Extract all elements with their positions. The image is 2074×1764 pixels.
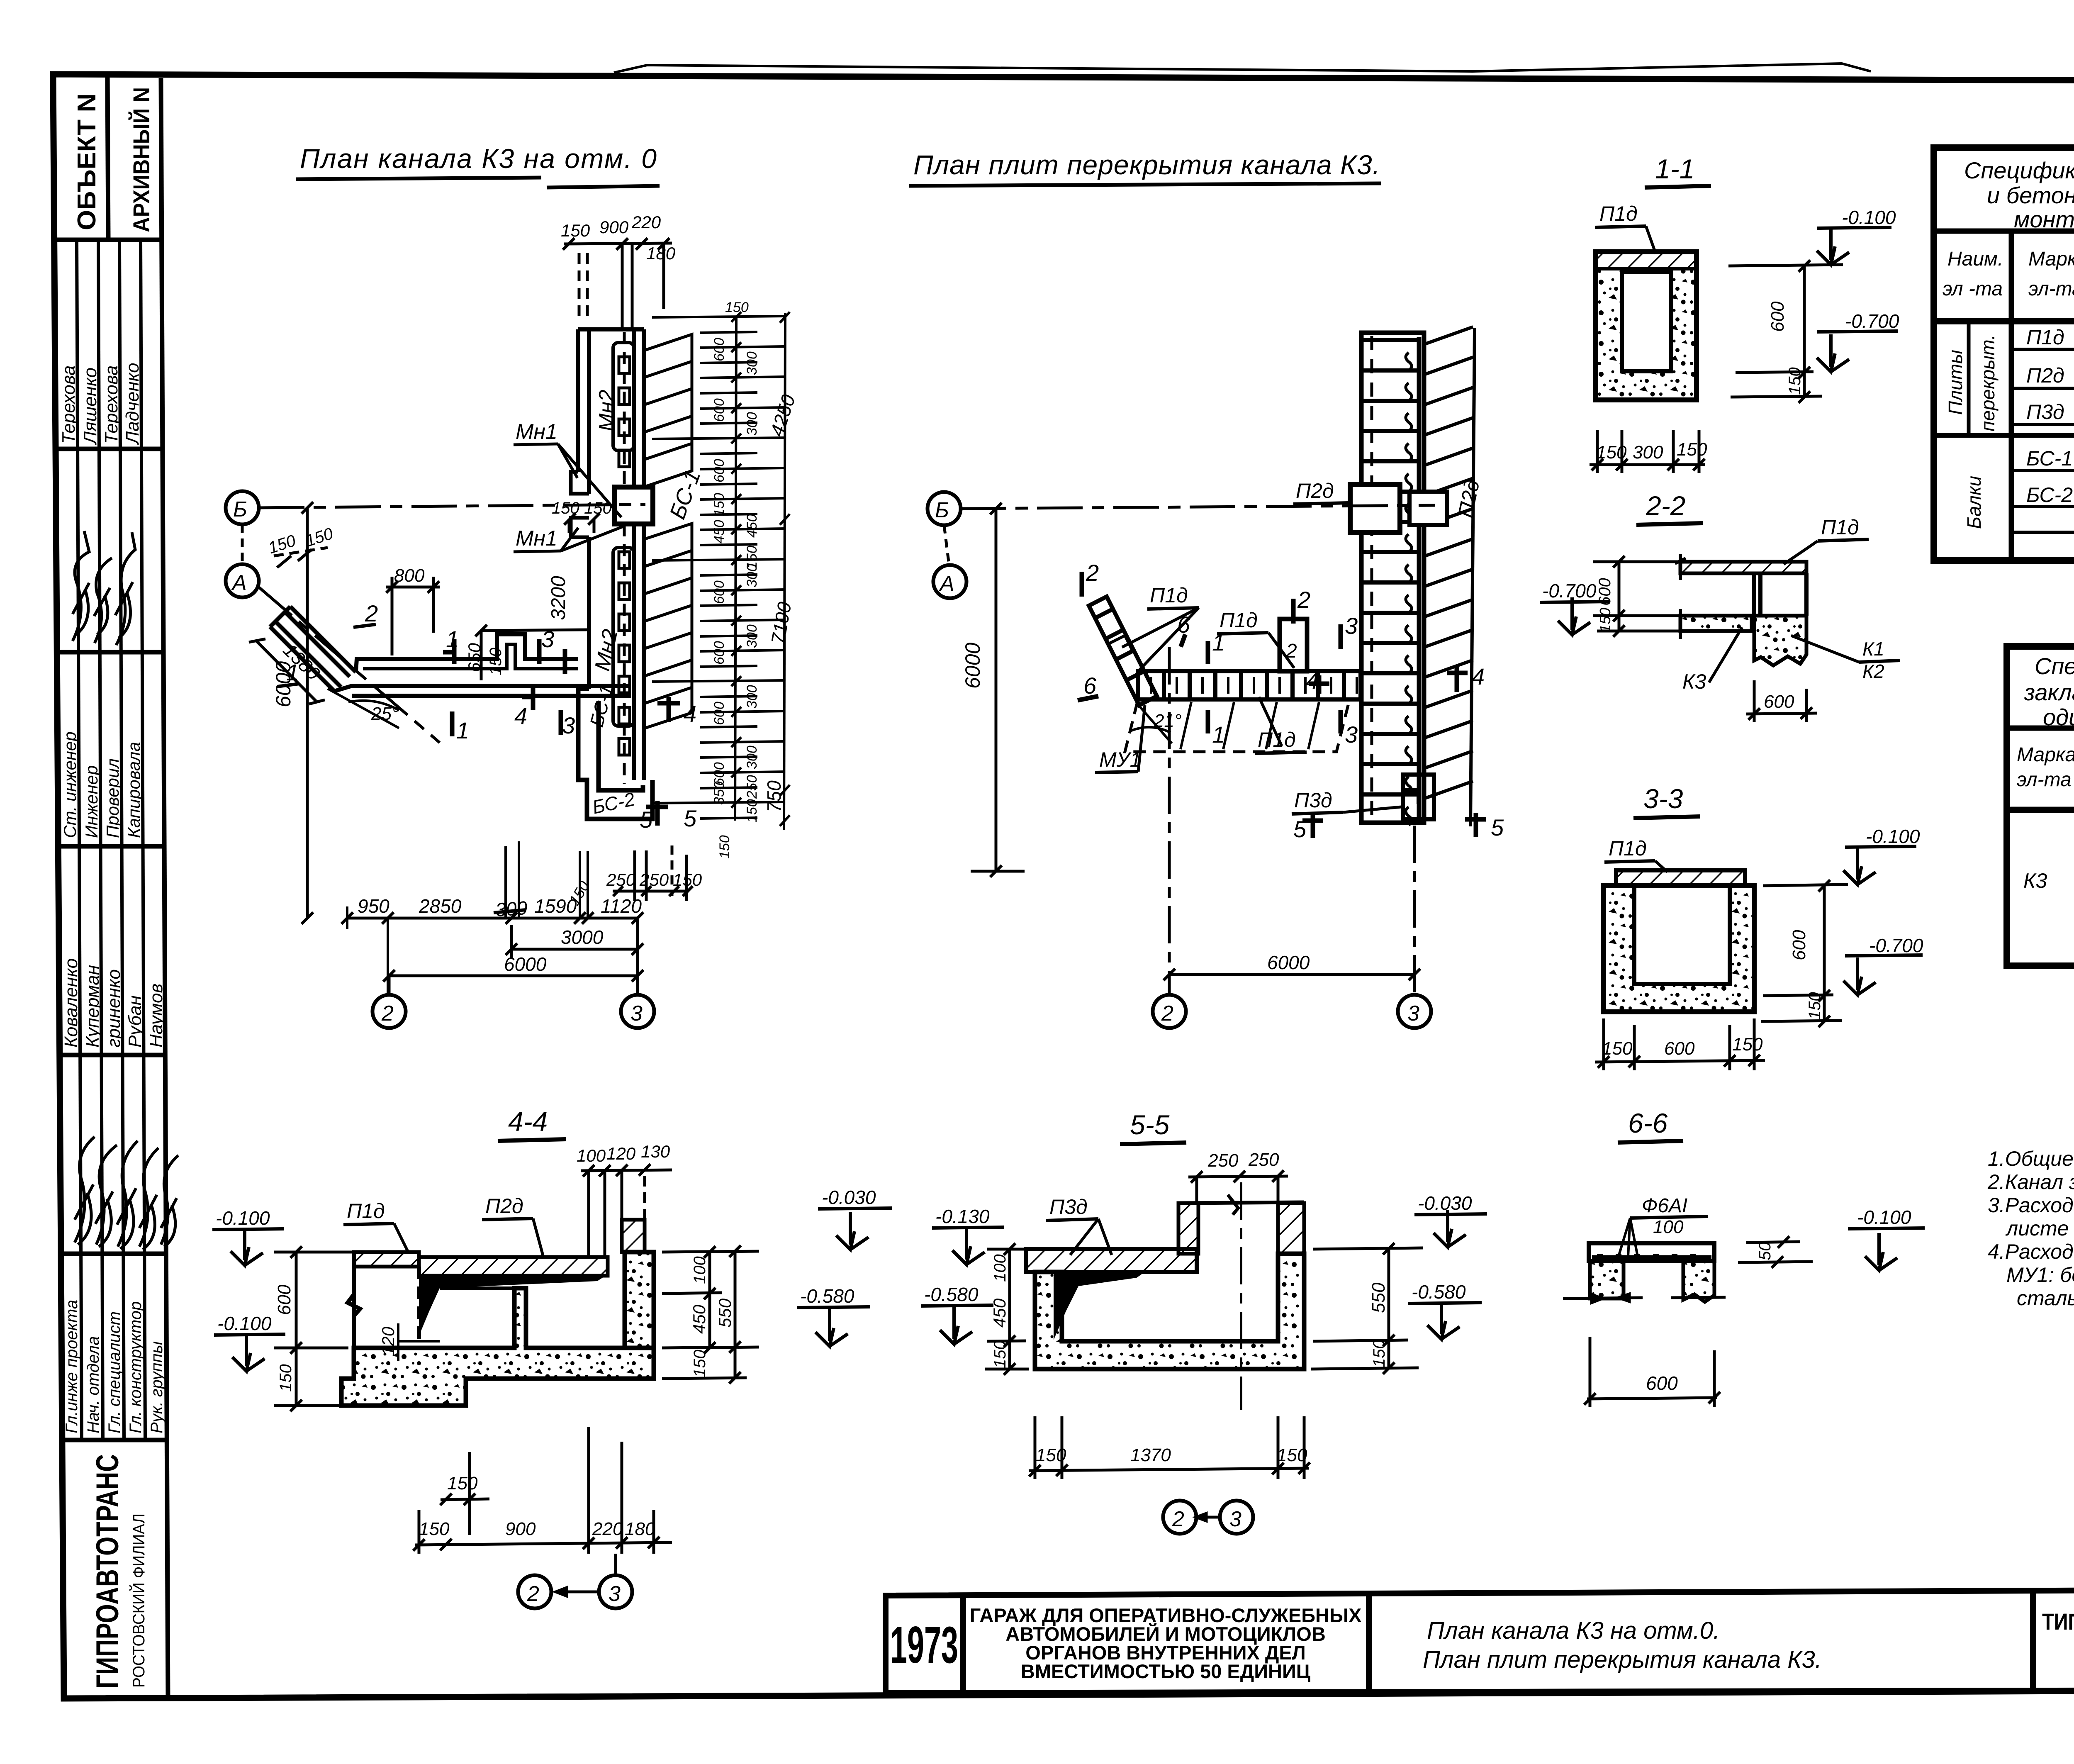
svg-text:300: 300 <box>744 624 760 648</box>
svg-text:450: 450 <box>711 520 727 543</box>
plan2 wall hatch <box>1424 327 1475 826</box>
svg-text:550: 550 <box>715 1298 735 1328</box>
plan1 dim 6000 vertical <box>302 502 313 924</box>
svg-text:3200: 3200 <box>548 576 570 620</box>
plan1 cut marks <box>443 639 680 826</box>
svg-text:Терехова: Терехова <box>101 365 122 444</box>
svg-text:Спецификация сборных железобет: Спецификация сборных железобетонных <box>1964 157 2074 183</box>
plan2 grid circle 2 <box>1153 995 1186 1028</box>
svg-text:100: 100 <box>1653 1217 1684 1237</box>
plan1 axis A circle <box>226 564 259 597</box>
strip signatures row6 <box>75 1137 178 1250</box>
sec22 right wall block <box>1754 616 1806 665</box>
plan1 chain 6000 <box>383 970 643 982</box>
sec55 top slab <box>1026 1249 1197 1272</box>
sec55 grid circles <box>1163 1501 1196 1534</box>
svg-text:Мн2: Мн2 <box>595 390 619 431</box>
strip row line 7 <box>62 1438 167 1442</box>
svg-text:гриненко: гриненко <box>104 969 124 1048</box>
sec11 box <box>1595 269 1697 400</box>
table2 outline <box>2007 646 2074 966</box>
svg-text:150: 150 <box>277 1364 295 1392</box>
svg-text:5: 5 <box>1293 816 1307 842</box>
svg-text:550: 550 <box>1368 1282 1389 1313</box>
svg-text:220: 220 <box>631 212 661 232</box>
plan2 dim 6000 bottom <box>1164 647 1420 995</box>
svg-text:150: 150 <box>1732 1034 1763 1055</box>
svg-text:1: 1 <box>286 659 299 685</box>
svg-text:БС-2: БС-2 <box>2026 483 2073 507</box>
strip titles row4 <box>60 731 144 838</box>
sec44 right wall <box>625 1252 654 1348</box>
sec66 bottom arrows <box>1563 1294 1726 1303</box>
svg-text:-0.100: -0.100 <box>216 1207 270 1229</box>
svg-text:250: 250 <box>639 870 669 889</box>
svg-text:450: 450 <box>689 1304 709 1334</box>
plan1 chain 3000 <box>506 925 643 958</box>
svg-text:Гл. конструктор: Гл. конструктор <box>127 1301 145 1433</box>
plan2 MU1 dashed patch <box>1125 702 1349 752</box>
table2 header <box>2017 742 2074 809</box>
svg-text:600: 600 <box>711 459 727 482</box>
svg-text:950: 950 <box>358 895 389 917</box>
plan1 wall hatch upper <box>644 334 692 487</box>
svg-text:Проверил: Проверил <box>103 758 122 838</box>
svg-text:П1д: П1д <box>1609 837 1647 860</box>
svg-text:1-1: 1-1 <box>1655 153 1694 184</box>
plan2 P2d box <box>1350 485 1400 533</box>
svg-text:перекрыт.: перекрыт. <box>1977 334 1999 431</box>
svg-text:3: 3 <box>1345 613 1358 639</box>
plan2 cut marks <box>1078 572 1486 838</box>
plan1 axis lines <box>242 504 645 743</box>
svg-text:Терехова: Терехова <box>58 365 79 444</box>
table2 title <box>2024 653 2074 730</box>
plan2 slab row <box>1138 671 1361 699</box>
svg-text:150: 150 <box>1806 992 1824 1020</box>
svg-text:П1д: П1д <box>2026 326 2064 349</box>
svg-text:120: 120 <box>606 1144 636 1163</box>
svg-text:П2д: П2д <box>2026 364 2064 387</box>
plan1 top dims 150 900 220 180 <box>561 212 676 263</box>
plan2 dim 6000 vertical <box>971 503 1025 877</box>
sec55 top dims <box>1207 1150 1279 1171</box>
sec55 wedge fill <box>1054 1272 1145 1340</box>
sec55 hatched wall right <box>1278 1203 1304 1254</box>
svg-text:150: 150 <box>447 1473 478 1494</box>
svg-text:П1д: П1д <box>1258 728 1296 751</box>
svg-text:150: 150 <box>1677 439 1707 460</box>
svg-text:Рук. группы: Рук. группы <box>148 1341 166 1433</box>
svg-text:Гл.инже проекта: Гл.инже проекта <box>63 1300 81 1433</box>
sec44 bottom slab <box>341 1288 654 1406</box>
plan1 BS-2 bottom box <box>578 689 652 819</box>
svg-text:3.Расход бетона на канал К3: 3.Расход бетона на канал К3 см. на <box>1988 1194 2074 1217</box>
svg-text:150: 150 <box>717 835 733 859</box>
svg-text:5: 5 <box>640 806 653 833</box>
svg-text:Коваленко: Коваленко <box>61 958 81 1048</box>
svg-text:эл-та: эл-та <box>2028 278 2074 300</box>
sec22 break marks <box>1675 554 1686 639</box>
sec11 level dims right <box>1728 260 1843 403</box>
sec11 bottom dims <box>1590 430 1705 473</box>
svg-text:Капировала: Капировала <box>124 742 144 838</box>
section 6-6 <box>1563 1108 1925 1407</box>
svg-text:150: 150 <box>487 648 505 675</box>
svg-text:Ляшенко: Ляшенко <box>80 368 100 445</box>
strip names row5 <box>61 958 166 1048</box>
svg-text:АРХИВНЫЙ N: АРХИВНЫЙ N <box>128 87 154 232</box>
plan1 grid circle 2 <box>388 976 391 995</box>
svg-text:Наим.: Наим. <box>1947 248 2003 270</box>
svg-text:150: 150 <box>991 1340 1009 1368</box>
svg-text:Мн1: Мн1 <box>516 420 557 444</box>
strip top box divider <box>107 75 108 240</box>
plan1 Mn2 plate lower <box>613 548 634 726</box>
sec66 P dim <box>1738 1236 1813 1268</box>
svg-text:-0.130: -0.130 <box>935 1206 990 1227</box>
plan1 canal K3 plan view <box>226 143 799 1028</box>
svg-text:-0.580: -0.580 <box>800 1285 854 1307</box>
sec55 U channel body <box>1035 1254 1304 1369</box>
svg-text:-0.700: -0.700 <box>1845 310 1899 332</box>
plan1 chain 250 250 150 <box>606 870 702 889</box>
plan1 bottom chain 1 <box>341 912 643 924</box>
svg-text:П1д: П1д <box>1150 584 1188 607</box>
svg-text:-0.580: -0.580 <box>924 1284 979 1305</box>
svg-text:1: 1 <box>446 626 459 652</box>
svg-text:6: 6 <box>1083 672 1097 699</box>
svg-text:К1: К1 <box>1862 638 1884 660</box>
svg-text:Спецификация марок: Спецификация марок <box>2035 653 2074 679</box>
svg-text:-0.100: -0.100 <box>217 1313 272 1334</box>
section 3-3 <box>1595 783 1923 1070</box>
svg-text:ОБЪЕКТ N: ОБЪЕКТ N <box>73 93 101 230</box>
svg-text:5: 5 <box>684 805 697 831</box>
plan2 slab plan view <box>909 149 1504 1028</box>
svg-text:250: 250 <box>1248 1150 1279 1170</box>
table2 data <box>2023 813 2074 892</box>
plan1 wall column <box>578 329 644 780</box>
strip row line 1 <box>54 238 162 242</box>
object name <box>970 1604 1362 1682</box>
svg-text:сталь Ф6АI-8кг.: сталь Ф6АI-8кг. <box>2017 1286 2074 1310</box>
svg-text:Марка: Марка <box>2028 248 2074 270</box>
section 5-5 <box>921 1109 1487 1534</box>
strip row line 2 <box>56 447 163 451</box>
svg-text:П3д: П3д <box>1294 789 1332 812</box>
sec55 right dims <box>1311 1243 1423 1374</box>
svg-text:Б: Б <box>935 498 949 522</box>
table1 outline <box>1934 148 2074 560</box>
svg-text:А: А <box>939 572 954 596</box>
svg-text:250: 250 <box>1207 1150 1239 1171</box>
sec44 right dims <box>662 1245 759 1384</box>
section 4-4 <box>212 1106 892 1608</box>
svg-text:150: 150 <box>725 300 749 315</box>
svg-text:П1д: П1д <box>347 1199 385 1223</box>
svg-text:Нач. отдела: Нач. отдела <box>84 1336 102 1433</box>
svg-text:600: 600 <box>274 1284 295 1315</box>
table1 group divider <box>1934 433 2074 438</box>
plan2 P3d box <box>1403 775 1434 819</box>
svg-text:600: 600 <box>711 398 727 422</box>
svg-text:-0.100: -0.100 <box>1866 826 1920 847</box>
svg-text:150: 150 <box>744 546 760 569</box>
svg-text:1370: 1370 <box>1130 1445 1171 1465</box>
svg-text:1973: 1973 <box>890 1616 958 1674</box>
sec44 top slab P2d <box>419 1257 608 1276</box>
svg-text:600: 600 <box>1789 930 1809 960</box>
svg-text:П2д: П2д <box>1296 479 1334 502</box>
svg-text:Балки: Балки <box>1963 476 1985 529</box>
svg-text:П2д: П2д <box>485 1194 523 1218</box>
plan1 dim comb right <box>652 312 790 830</box>
svg-text:3: 3 <box>562 712 575 738</box>
svg-text:листе КС-10;: листе КС-10; <box>2005 1217 2074 1240</box>
svg-text:3: 3 <box>609 1582 621 1606</box>
svg-text:600: 600 <box>1646 1372 1678 1394</box>
svg-text:600: 600 <box>711 641 727 665</box>
svg-text:600: 600 <box>711 702 727 725</box>
sec44 grid circles <box>518 1575 551 1608</box>
svg-text:эл -та: эл -та <box>1943 278 2003 300</box>
strip row line 6 <box>61 1252 166 1256</box>
plan1 horizontal canal walls <box>334 634 631 696</box>
svg-text:-0.700: -0.700 <box>1542 580 1597 602</box>
svg-text:План плит перекрытия канала К3: План плит перекрытия канала К3. <box>1423 1646 1822 1673</box>
cell line after object <box>1366 1593 1372 1691</box>
strip names row2 <box>58 363 143 445</box>
svg-text:150: 150 <box>691 1350 709 1377</box>
svg-text:К2: К2 <box>1862 660 1884 682</box>
svg-text:-0.030: -0.030 <box>822 1187 876 1208</box>
svg-text:150: 150 <box>419 1519 450 1539</box>
svg-text:130: 130 <box>641 1142 670 1161</box>
svg-text:300: 300 <box>744 746 760 769</box>
cell line 1973 <box>960 1595 966 1693</box>
sec22 top slab <box>1680 562 1806 573</box>
svg-text:150: 150 <box>1786 367 1804 395</box>
svg-text:Плиты: Плиты <box>1945 350 1966 415</box>
svg-text:П3д: П3д <box>1049 1195 1088 1218</box>
svg-text:6000: 6000 <box>961 643 984 689</box>
table2 title divider <box>2007 726 2074 731</box>
svg-text:2: 2 <box>1161 1001 1173 1026</box>
svg-text:6: 6 <box>1177 612 1190 638</box>
svg-text:БС-1: БС-1 <box>2026 447 2073 470</box>
svg-text:2: 2 <box>1086 560 1099 586</box>
svg-text:600: 600 <box>1764 692 1794 712</box>
sec55 bottom dims <box>1036 1445 1307 1465</box>
svg-text:150: 150 <box>1370 1340 1388 1367</box>
project cell <box>2042 1608 2074 1673</box>
section 2-2 <box>1540 490 1900 722</box>
svg-text:План канала К3 на отм. 0: План канала К3 на отм. 0 <box>300 143 657 174</box>
svg-text:4.Расход бетона на монолитны: 4.Расход бетона на монолитный участок <box>1988 1240 2074 1263</box>
svg-text:2.Канал замаркирован на листе: 2.Канал замаркирован на листе КС-8; <box>1987 1170 2074 1194</box>
plan1 dim 1380 <box>249 639 325 704</box>
svg-text:900: 900 <box>599 217 629 237</box>
svg-text:600: 600 <box>1664 1038 1695 1059</box>
svg-text:закладных деталей на: закладных деталей на <box>2024 679 2074 705</box>
svg-text:Гл. специалист: Гл. специалист <box>105 1311 124 1433</box>
title block outline <box>886 1589 2074 1693</box>
svg-text:6-6: 6-6 <box>1628 1108 1668 1138</box>
svg-text:-0.700: -0.700 <box>1869 935 1923 956</box>
svg-text:5-5: 5-5 <box>1130 1109 1170 1140</box>
svg-text:П1д: П1д <box>1599 202 1638 225</box>
strip row line 4 <box>58 844 164 849</box>
svg-text:100: 100 <box>691 1256 709 1284</box>
strip row line 5 <box>59 1053 165 1057</box>
svg-text:эл-та: эл-та <box>2017 769 2072 791</box>
strip signatures row3 <box>73 531 135 645</box>
plan1 wall notches left <box>571 472 589 537</box>
svg-text:2: 2 <box>365 600 378 626</box>
plan1 axis B circle <box>226 491 259 524</box>
section 1-1 <box>1590 153 1899 473</box>
svg-text:120: 120 <box>378 1326 398 1356</box>
svg-text:3: 3 <box>1229 1507 1241 1531</box>
svg-text:150: 150 <box>1596 442 1627 463</box>
svg-text:450: 450 <box>990 1298 1009 1328</box>
svg-text:-0.100: -0.100 <box>1857 1206 1911 1228</box>
sec55 hatched wall left <box>1178 1203 1198 1254</box>
plan1 BS-1 beam box <box>615 487 653 524</box>
svg-text:П1д: П1д <box>1220 609 1258 632</box>
sec22 bottom slab <box>1680 616 1752 631</box>
svg-text:600: 600 <box>1596 578 1614 606</box>
svg-text:300: 300 <box>744 685 760 709</box>
svg-text:4: 4 <box>1306 668 1319 694</box>
svg-text:350: 350 <box>711 781 727 805</box>
svg-text:-0.580: -0.580 <box>1412 1281 1466 1303</box>
strip columns r2 <box>77 240 145 1440</box>
svg-text:Ф6АI: Ф6АI <box>1642 1195 1687 1217</box>
svg-text:600: 600 <box>1767 301 1788 332</box>
svg-text:50: 50 <box>1756 1242 1774 1261</box>
sec44 inner lines <box>440 1286 514 1290</box>
table1 title <box>1964 157 2074 232</box>
svg-text:Наумов: Наумов <box>146 984 166 1048</box>
svg-text:Ст. инженер: Ст. инженер <box>60 731 80 838</box>
table1 title divider <box>1934 229 2074 234</box>
svg-text:2: 2 <box>527 1582 539 1606</box>
svg-text:-0.030: -0.030 <box>1418 1192 1472 1214</box>
svg-text:План канала К3 на отм.0.: План канала К3 на отм.0. <box>1427 1617 1720 1644</box>
svg-text:А: А <box>231 571 247 595</box>
svg-text:150: 150 <box>1602 1038 1633 1059</box>
sec22 dim 600 bottom <box>1746 680 1817 722</box>
svg-text:План плит перекрытия канала: План плит перекрытия канала К3. <box>913 149 1380 180</box>
svg-text:1: 1 <box>1212 721 1225 748</box>
sec33 box <box>1604 886 1754 1012</box>
svg-text:4: 4 <box>1472 663 1485 690</box>
svg-text:один элемент: один элемент <box>2043 704 2074 730</box>
plan2 diagonal plate <box>1089 597 1157 705</box>
sec66 right leg <box>1683 1261 1714 1302</box>
svg-text:600: 600 <box>711 338 727 361</box>
sec33 level dims right <box>1761 880 1848 1027</box>
svg-text:РОСТОВСКИЙ ФИЛИАЛ: РОСТОВСКИЙ ФИЛИАЛ <box>129 1513 148 1688</box>
svg-text:6000: 6000 <box>504 953 547 975</box>
plan1 grid circle 3 <box>636 918 639 995</box>
svg-text:1.Общие примечания см. лист: 1.Общие примечания см. лист КС-8; <box>1988 1147 2074 1170</box>
svg-text:ГИПРОАВТОТРАНС: ГИПРОАВТОТРАНС <box>90 1454 125 1688</box>
svg-text:220: 220 <box>592 1519 623 1539</box>
svg-text:3000: 3000 <box>561 926 604 948</box>
svg-text:Рубан: Рубан <box>125 995 145 1048</box>
sheet name <box>1423 1617 1822 1673</box>
svg-text:К3: К3 <box>1682 670 1706 693</box>
svg-text:Ладченко: Ладченко <box>122 363 143 445</box>
svg-text:3: 3 <box>1345 721 1358 748</box>
svg-text:1: 1 <box>456 717 469 743</box>
sec44 left wall <box>348 1252 419 1348</box>
svg-text:-0.100: -0.100 <box>1842 207 1896 228</box>
svg-text:3-3: 3-3 <box>1643 783 1683 814</box>
svg-text:монтажную схему.: монтажную схему. <box>2014 206 2074 232</box>
strip titles row7 <box>63 1300 166 1433</box>
svg-text:750: 750 <box>763 780 785 812</box>
table1 data <box>2026 326 2074 507</box>
plan2 axis A circle <box>933 565 966 598</box>
plan1 diagonal channel <box>270 607 356 691</box>
sec44 wedge fill <box>419 1276 606 1336</box>
svg-text:300: 300 <box>1633 442 1663 463</box>
svg-text:1: 1 <box>1212 629 1225 655</box>
svg-text:П3д: П3д <box>2026 400 2064 424</box>
plan2 axis B circle <box>927 492 961 525</box>
sec22 left dims <box>1593 556 1680 637</box>
svg-text:4: 4 <box>514 703 527 729</box>
svg-text:6000: 6000 <box>1267 952 1310 973</box>
svg-text:3: 3 <box>630 1001 643 1026</box>
svg-text:4-4: 4-4 <box>508 1106 548 1137</box>
svg-text:П1д: П1д <box>1821 516 1859 539</box>
strip row line 3 <box>57 650 163 655</box>
svg-text:800: 800 <box>394 565 425 586</box>
strip org name <box>90 1454 148 1688</box>
sec44 top slab P1d <box>354 1252 419 1267</box>
svg-text:600: 600 <box>711 580 727 604</box>
svg-text:2: 2 <box>381 1001 394 1026</box>
sec66 slab <box>1589 1243 1714 1261</box>
plan2 P1d vertical plate box <box>1280 619 1307 671</box>
svg-text:150: 150 <box>744 799 760 823</box>
svg-text:150: 150 <box>561 221 590 240</box>
svg-text:100: 100 <box>577 1146 606 1165</box>
svg-text:300: 300 <box>744 412 760 436</box>
plan1 Mn2 plate upper <box>613 343 634 451</box>
strip right edge <box>161 78 168 1698</box>
sec66 left leg <box>1590 1261 1624 1299</box>
sec44 right wall hatched top <box>622 1220 645 1252</box>
svg-text:Марка: Марка <box>2017 744 2074 766</box>
svg-text:Куперман: Куперман <box>83 965 103 1048</box>
cell line before project <box>2030 1591 2036 1688</box>
svg-text:450: 450 <box>744 514 760 538</box>
svg-text:Мн1: Мн1 <box>516 526 557 551</box>
svg-text:Б: Б <box>233 497 247 521</box>
scan paper edge top <box>614 63 1871 73</box>
plan2 plate connectors <box>1406 353 1412 825</box>
sec44 top dims <box>577 1142 670 1165</box>
svg-text:2850: 2850 <box>419 895 462 917</box>
plan2 wall plate ladder <box>1361 333 1424 823</box>
svg-text:300: 300 <box>744 351 760 375</box>
